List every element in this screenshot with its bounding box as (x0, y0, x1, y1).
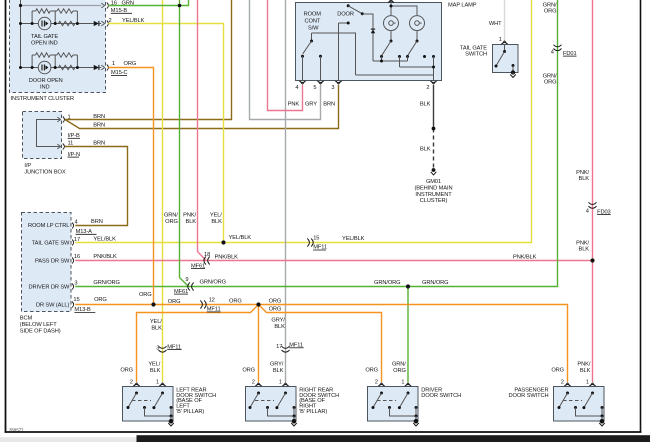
svg-text:BRN: BRN (93, 123, 105, 129)
svg-text:BLK: BLK (150, 368, 161, 374)
svg-text:16: 16 (74, 254, 80, 260)
svg-text:BRN: BRN (91, 219, 103, 225)
svg-text:ORG: ORG (365, 368, 378, 374)
svg-text:'B' PILLAR): 'B' PILLAR) (299, 409, 327, 415)
svg-text:GRY: GRY (305, 101, 317, 107)
svg-text:BRN: BRN (93, 141, 105, 147)
svg-text:4: 4 (586, 209, 589, 215)
svg-text:PNK/BLK: PNK/BLK (513, 255, 537, 261)
svg-text:YEL/BLK: YEL/BLK (342, 236, 365, 242)
svg-text:GRN/ORG: GRN/ORG (422, 280, 448, 286)
svg-text:BLK: BLK (274, 324, 285, 330)
svg-text:358577: 358577 (9, 427, 24, 432)
svg-text:PNK/: PNK/ (576, 240, 589, 246)
svg-text:DRIVER DR SW: DRIVER DR SW (28, 285, 70, 291)
svg-text:ORG: ORG (229, 299, 242, 305)
svg-text:BRN: BRN (323, 101, 335, 107)
svg-text:IND: IND (40, 84, 50, 90)
svg-text:ORG: ORG (269, 307, 282, 313)
svg-text:2: 2 (561, 379, 564, 385)
svg-text:3: 3 (74, 281, 77, 287)
svg-text:2: 2 (252, 379, 255, 385)
svg-text:DR SW (ALL): DR SW (ALL) (36, 302, 70, 308)
svg-text:(BELOW LEFT: (BELOW LEFT (20, 322, 57, 328)
svg-text:PASS DR SW: PASS DR SW (35, 258, 70, 264)
svg-text:BCM: BCM (20, 316, 33, 322)
svg-text:BLK: BLK (579, 247, 590, 253)
svg-text:(BEHIND MAIN: (BEHIND MAIN (415, 185, 453, 191)
svg-text:DOOR: DOOR (337, 11, 354, 17)
svg-text:1: 1 (279, 379, 282, 385)
svg-text:GRN/ORG: GRN/ORG (200, 279, 226, 285)
svg-text:9: 9 (185, 277, 188, 283)
svg-text:DOOR OPEN: DOOR OPEN (29, 78, 63, 84)
svg-text:BLK: BLK (420, 101, 431, 107)
svg-text:WHT: WHT (489, 21, 502, 27)
svg-text:YEL/BLK: YEL/BLK (93, 237, 116, 243)
svg-text:PNK: PNK (288, 101, 300, 107)
svg-text:1: 1 (586, 379, 589, 385)
svg-text:18: 18 (204, 252, 210, 258)
svg-text:GRN/: GRN/ (543, 2, 557, 8)
svg-text:ORG: ORG (165, 219, 178, 225)
svg-text:GRN/: GRN/ (543, 73, 557, 79)
svg-text:ORG: ORG (139, 292, 152, 298)
svg-text:1: 1 (112, 61, 115, 67)
svg-text:3: 3 (331, 85, 334, 91)
svg-text:ROOM: ROOM (304, 11, 322, 17)
svg-text:INSTRUMENT CLUSTER: INSTRUMENT CLUSTER (11, 96, 75, 102)
svg-text:I/P: I/P (24, 163, 31, 169)
svg-text:BLK: BLK (579, 176, 590, 182)
svg-text:BLK: BLK (420, 147, 431, 153)
svg-text:DOOR SWITCH: DOOR SWITCH (509, 393, 549, 399)
svg-text:15: 15 (313, 236, 319, 242)
svg-text:PNK/: PNK/ (183, 213, 196, 219)
svg-text:GRN/ORG: GRN/ORG (93, 280, 119, 286)
svg-text:'B' PILLAR): 'B' PILLAR) (176, 409, 204, 415)
svg-text:ORG: ORG (124, 61, 137, 67)
svg-text:JUNCTION BOX: JUNCTION BOX (24, 169, 65, 175)
svg-text:PNK/BLK: PNK/BLK (93, 254, 117, 260)
svg-text:2: 2 (426, 85, 429, 91)
svg-text:15: 15 (73, 297, 79, 303)
svg-text:ORG: ORG (269, 299, 282, 305)
svg-text:ORG: ORG (544, 80, 557, 86)
svg-text:INSTRUMENT: INSTRUMENT (415, 192, 452, 198)
svg-text:YEL/: YEL/ (148, 362, 160, 368)
svg-text:12: 12 (209, 298, 215, 304)
svg-text:YEL/: YEL/ (210, 213, 222, 219)
svg-text:BLK: BLK (273, 368, 284, 374)
svg-text:ROOM LP CTRL: ROOM LP CTRL (28, 223, 69, 229)
svg-text:OPEN IND: OPEN IND (31, 41, 58, 47)
svg-text:1: 1 (401, 379, 404, 385)
svg-text:BLK: BLK (186, 219, 197, 225)
svg-text:5: 5 (313, 85, 316, 91)
svg-text:TAIL GATE: TAIL GATE (460, 45, 487, 51)
svg-text:1: 1 (499, 37, 502, 43)
svg-text:TAIL GATE: TAIL GATE (31, 34, 58, 40)
svg-text:GRN/ORG: GRN/ORG (374, 280, 400, 286)
svg-text:GRY/: GRY/ (270, 362, 284, 368)
svg-text:ORG: ORG (120, 368, 133, 374)
svg-text:17: 17 (276, 344, 282, 350)
svg-text:ORG: ORG (544, 9, 557, 15)
svg-text:S/W: S/W (308, 25, 319, 31)
svg-text:GRN/: GRN/ (392, 362, 406, 368)
svg-text:SIDE OF DASH): SIDE OF DASH) (20, 329, 61, 335)
svg-text:ORG: ORG (94, 297, 107, 303)
svg-text:1: 1 (156, 379, 159, 385)
svg-text:4: 4 (295, 85, 298, 91)
svg-text:YEL/: YEL/ (150, 319, 162, 325)
svg-text:BLK: BLK (151, 325, 162, 331)
svg-text:CONT: CONT (305, 18, 321, 24)
svg-text:4: 4 (551, 50, 554, 56)
svg-text:11: 11 (68, 141, 74, 147)
svg-text:MAP LAMP: MAP LAMP (448, 2, 477, 8)
svg-text:ORG: ORG (551, 368, 564, 374)
svg-text:2: 2 (375, 379, 378, 385)
svg-text:ORG: ORG (242, 368, 255, 374)
svg-text:CLUSTER): CLUSTER) (420, 198, 448, 204)
svg-text:BLK: BLK (580, 368, 591, 374)
svg-text:BLK: BLK (211, 219, 222, 225)
svg-text:ORG: ORG (168, 299, 181, 305)
svg-text:SWITCH: SWITCH (465, 52, 487, 58)
svg-text:PNK/: PNK/ (576, 170, 589, 176)
svg-text:GRY/: GRY/ (271, 318, 285, 324)
svg-text:3: 3 (156, 345, 159, 351)
svg-text:PNK/: PNK/ (577, 362, 590, 368)
svg-text:GRN/: GRN/ (164, 213, 178, 219)
svg-text:GM01: GM01 (426, 179, 441, 185)
svg-text:TAIL GATE SW: TAIL GATE SW (32, 241, 70, 247)
svg-text:2: 2 (130, 379, 133, 385)
svg-text:DOOR SWITCH: DOOR SWITCH (421, 393, 461, 399)
svg-text:PNK/BLK: PNK/BLK (215, 255, 239, 261)
svg-text:ORG: ORG (393, 368, 406, 374)
svg-text:4: 4 (75, 220, 78, 226)
svg-text:YEL/BLK: YEL/BLK (229, 235, 252, 241)
